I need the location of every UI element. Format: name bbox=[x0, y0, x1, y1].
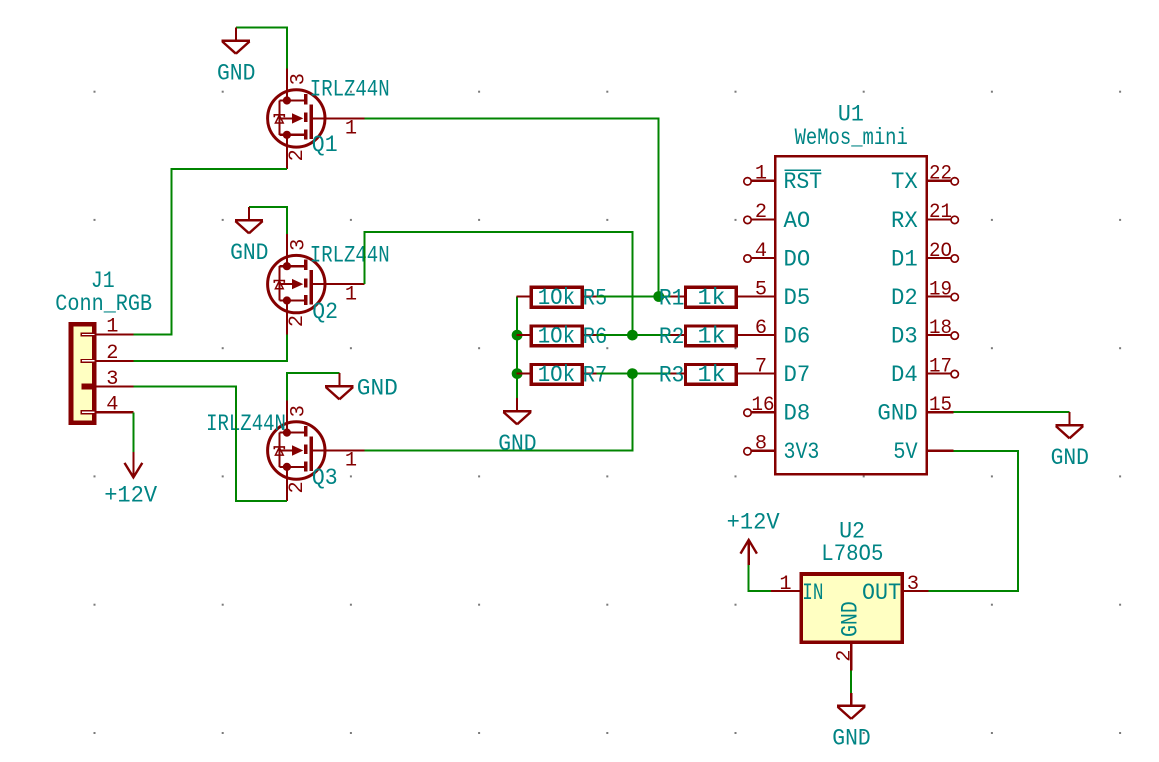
U1 pin 4 (D0) bbox=[744, 255, 774, 262]
svg-text:Q2: Q2 bbox=[312, 299, 338, 325]
svg-text:R3: R3 bbox=[659, 362, 685, 388]
svg-text:18: 18 bbox=[929, 317, 952, 340]
junction Q3 gate node bbox=[627, 368, 638, 379]
svg-text:IRLZ44N: IRLZ44N bbox=[310, 242, 390, 268]
svg-text:5V: 5V bbox=[893, 439, 918, 465]
wire Q3 gate to R3 node bbox=[365, 374, 633, 451]
svg-text:GND: GND bbox=[230, 240, 268, 266]
U1 pin 17 (D4) bbox=[928, 370, 959, 377]
svg-text:3: 3 bbox=[288, 239, 311, 251]
U1 pin 5 (D5) bbox=[738, 295, 774, 297]
wire U1 5V to U2 OUT bbox=[928, 451, 1017, 591]
J1 pin 1 bbox=[81, 333, 133, 336]
U1 RST overline bbox=[785, 169, 822, 171]
wire Q1 gate to R1 node bbox=[365, 118, 659, 296]
U1 pin 22 (TX) bbox=[928, 178, 959, 185]
svg-text:2: 2 bbox=[106, 342, 118, 365]
svg-text:15: 15 bbox=[929, 394, 952, 417]
regulator U2 L7805 body bbox=[801, 574, 902, 642]
R3 left pin bbox=[671, 373, 684, 375]
U1 pin 18 (D3) bbox=[928, 332, 959, 339]
ground GND2 (Q2 drain) bbox=[235, 207, 263, 233]
U1 pin 16 (D8) bbox=[744, 409, 774, 416]
U2 pin 3 (OUT) bbox=[904, 590, 928, 592]
svg-text:Conn_RGB: Conn_RGB bbox=[55, 291, 152, 317]
svg-text:GND: GND bbox=[498, 431, 536, 457]
svg-text:2: 2 bbox=[286, 149, 309, 161]
svg-text:1k: 1k bbox=[698, 324, 726, 350]
svg-text:D5: D5 bbox=[784, 285, 811, 311]
wire U2 pin2 to GND bbox=[850, 670, 852, 695]
R3 right pin bbox=[738, 373, 774, 375]
ground GND5 (U1 pin15) bbox=[1055, 412, 1083, 438]
junction R6 left node bbox=[512, 330, 523, 341]
R1 right pin bbox=[738, 295, 774, 297]
svg-text:1: 1 bbox=[106, 316, 118, 339]
svg-text:4: 4 bbox=[106, 394, 118, 417]
svg-text:22: 22 bbox=[929, 163, 952, 186]
svg-text:GND: GND bbox=[357, 375, 398, 401]
svg-text:D7: D7 bbox=[784, 362, 811, 388]
svg-text:1: 1 bbox=[779, 573, 791, 596]
svg-text:5: 5 bbox=[755, 278, 767, 301]
power +12V (U2 IN) bbox=[741, 540, 757, 565]
svg-text:1Ok: 1Ok bbox=[538, 285, 575, 311]
wire J1 pin1 to Q1 source bbox=[133, 169, 287, 335]
wire +12V to U2 IN bbox=[749, 565, 771, 591]
transistor Q1 IRLZ44N bbox=[268, 68, 365, 168]
R1 left pin bbox=[671, 295, 684, 297]
svg-text:3: 3 bbox=[907, 573, 919, 596]
R5 right pin bbox=[584, 295, 597, 297]
ground GND3 (Q3 drain) bbox=[325, 373, 353, 399]
svg-text:GND: GND bbox=[1051, 445, 1089, 471]
junction Q2 gate node bbox=[627, 330, 638, 341]
svg-text:L78O5: L78O5 bbox=[821, 541, 883, 567]
svg-text:21: 21 bbox=[929, 201, 952, 224]
svg-text:8: 8 bbox=[755, 433, 767, 456]
svg-text:GND: GND bbox=[217, 60, 255, 86]
U2 pin 1 (IN) bbox=[771, 590, 799, 592]
resistor R1 bbox=[686, 287, 737, 307]
R7 left pin bbox=[517, 373, 530, 375]
wire R7 to R3 bbox=[597, 373, 672, 375]
svg-text:1: 1 bbox=[345, 118, 357, 141]
svg-text:D4: D4 bbox=[891, 362, 918, 388]
svg-text:16: 16 bbox=[752, 394, 775, 417]
wire Q3 drain to GND bbox=[287, 373, 340, 400]
svg-text:2: 2 bbox=[286, 315, 309, 327]
svg-text:+12V: +12V bbox=[727, 509, 780, 535]
svg-text:D3: D3 bbox=[891, 324, 918, 350]
svg-text:2: 2 bbox=[755, 201, 767, 224]
U1 pin 7 (D7) bbox=[738, 373, 774, 375]
svg-text:R5: R5 bbox=[583, 286, 607, 312]
svg-text:OUT: OUT bbox=[862, 580, 901, 606]
U1 pin 15 (GND) bbox=[928, 411, 954, 413]
wire J1 pin4 to +12V bbox=[132, 412, 134, 452]
wire R6 to R2 bbox=[597, 334, 672, 336]
svg-text:D8: D8 bbox=[784, 401, 811, 427]
svg-text:TX: TX bbox=[891, 169, 918, 195]
svg-text:D2: D2 bbox=[891, 285, 918, 311]
svg-text:1Ok: 1Ok bbox=[538, 362, 575, 388]
resistor R2 bbox=[686, 326, 737, 346]
wire U1 GND pin15 bbox=[954, 411, 1070, 413]
resistor R3 bbox=[686, 364, 737, 384]
U1 pin 1 (RST) bbox=[744, 178, 774, 185]
svg-text:17: 17 bbox=[929, 355, 952, 378]
svg-text:IRLZ44N: IRLZ44N bbox=[206, 411, 286, 437]
svg-text:IN: IN bbox=[802, 580, 823, 606]
svg-text:19: 19 bbox=[929, 278, 952, 301]
svg-text:7: 7 bbox=[755, 355, 767, 378]
U1 pin 19 (D2) bbox=[928, 293, 959, 300]
svg-text:3: 3 bbox=[288, 73, 311, 85]
ground GND4 (10k rail) bbox=[503, 398, 531, 424]
ground GND1 (Q1 drain) bbox=[222, 28, 250, 54]
wire Q2 drain to GND bbox=[249, 207, 287, 234]
U1 pin 21 (RX) bbox=[928, 216, 959, 223]
U2 pin 2 (GND) bbox=[850, 644, 852, 670]
svg-text:3: 3 bbox=[106, 368, 118, 391]
svg-text:2: 2 bbox=[833, 650, 856, 662]
svg-text:Q1: Q1 bbox=[312, 132, 338, 158]
wire Q2 gate to R2 node bbox=[365, 232, 633, 335]
svg-text:R1: R1 bbox=[659, 285, 685, 311]
svg-text:AO: AO bbox=[784, 208, 811, 234]
connector J1 Conn_RGB body bbox=[71, 324, 94, 423]
svg-text:3V3: 3V3 bbox=[784, 439, 820, 465]
U1 pin 8 (3V3) bbox=[744, 448, 774, 455]
U1 pin 20 (D1) bbox=[928, 255, 959, 262]
wire J1 pin3 to Q3 source bbox=[133, 387, 287, 501]
svg-text:RX: RX bbox=[891, 208, 918, 234]
junction Q1 gate node bbox=[653, 291, 664, 302]
svg-text:1Ok: 1Ok bbox=[538, 324, 575, 350]
svg-text:IRLZ44N: IRLZ44N bbox=[310, 77, 390, 103]
ground GND6 (U2 pin2) bbox=[837, 693, 865, 719]
svg-text:3: 3 bbox=[288, 405, 311, 417]
svg-text:1: 1 bbox=[345, 450, 357, 473]
R2 left pin bbox=[671, 334, 684, 336]
svg-text:1: 1 bbox=[345, 283, 357, 306]
svg-text:GND: GND bbox=[838, 601, 864, 637]
svg-text:Q3: Q3 bbox=[312, 465, 338, 491]
J1 pin 2 bbox=[81, 360, 133, 363]
svg-text:U1: U1 bbox=[838, 102, 864, 128]
svg-text:6: 6 bbox=[755, 317, 767, 340]
svg-text:D6: D6 bbox=[784, 324, 811, 350]
U1 pin 2 (A0) bbox=[744, 216, 774, 223]
svg-text:2: 2 bbox=[286, 481, 309, 493]
svg-text:2O: 2O bbox=[929, 240, 952, 263]
wire 10k left rail to GND bbox=[516, 297, 518, 401]
wire R5 to R1 bbox=[597, 296, 672, 298]
svg-text:WeMos_mini: WeMos_mini bbox=[795, 125, 908, 151]
R7 right pin bbox=[584, 373, 597, 375]
svg-text:1k: 1k bbox=[698, 362, 726, 388]
svg-text:4: 4 bbox=[755, 240, 767, 263]
wire J1 pin2 to Q2 source bbox=[133, 335, 287, 361]
svg-text:DO: DO bbox=[784, 246, 811, 272]
resistor R5 bbox=[531, 287, 582, 307]
wire Q1 drain to GND bbox=[236, 28, 287, 69]
R6 right pin bbox=[584, 334, 597, 336]
svg-text:R6: R6 bbox=[583, 324, 607, 350]
svg-text:GND: GND bbox=[832, 726, 870, 752]
resistor R6 bbox=[531, 326, 582, 346]
transistor Q3 IRLZ44N bbox=[268, 401, 365, 501]
resistor R7 bbox=[531, 364, 582, 384]
U1 pin 6 (D6) bbox=[738, 334, 774, 336]
svg-text:1k: 1k bbox=[698, 285, 726, 311]
J1 pin 3 bbox=[81, 384, 133, 390]
IC U1 WeMos_mini body bbox=[775, 156, 927, 474]
svg-text:GND: GND bbox=[877, 401, 917, 427]
R6 left pin bbox=[517, 334, 530, 336]
svg-text:R2: R2 bbox=[659, 324, 685, 350]
svg-text:R7: R7 bbox=[583, 363, 607, 389]
svg-text:+12V: +12V bbox=[104, 482, 157, 508]
svg-text:1: 1 bbox=[755, 163, 767, 186]
U1 pin 23 (5V) bbox=[928, 450, 954, 452]
R2 right pin bbox=[738, 334, 774, 336]
svg-text:D1: D1 bbox=[891, 246, 918, 272]
J1 pin 4 bbox=[81, 411, 133, 414]
svg-text:RST: RST bbox=[784, 169, 823, 195]
junction R7 left node bbox=[512, 368, 523, 379]
R5 left pin bbox=[517, 295, 530, 297]
power +12V (J1 pin4) bbox=[125, 452, 143, 477]
transistor Q2 IRLZ44N bbox=[268, 234, 365, 334]
